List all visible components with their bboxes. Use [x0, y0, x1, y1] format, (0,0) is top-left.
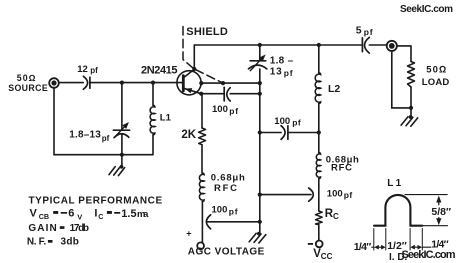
svg-text:pf: pf	[229, 106, 238, 116]
resistor RL 50 ohm load	[408, 62, 415, 88]
dimension arrows left 1/4	[372, 245, 386, 250]
wire: top bus	[194, 44, 361, 46]
wire: C1 to Q1 base	[90, 82, 183, 84]
node L2 top	[317, 43, 321, 47]
variable capacitor C5 1.8-13pf (output)	[249, 53, 268, 71]
wire: output terminal down and right	[392, 51, 411, 108]
wire: L2 to mid node	[318, 104, 320, 153]
svg-text:5/8″: 5/8″	[431, 206, 451, 218]
svg-text:L1: L1	[160, 112, 172, 123]
input terminal J1 (50 ohm source)	[49, 78, 59, 88]
svg-text:5: 5	[356, 24, 362, 36]
svg-text:N. F.: N. F.	[27, 236, 46, 247]
VCC terminal	[316, 241, 323, 248]
resistor RC	[316, 211, 323, 225]
label 100 pf (collector bypass)	[327, 189, 353, 201]
shield dashed line to bypass node	[196, 70, 223, 83]
svg-text:TYPICAL PERFORMANCE: TYPICAL PERFORMANCE	[29, 196, 163, 207]
wire: case lead to ground bus	[201, 82, 259, 84]
ground (input tank)	[109, 155, 125, 176]
svg-text:1/4″: 1/4″	[354, 241, 372, 253]
label 0.68uh RFC (right)	[326, 155, 359, 174]
shield dashed line	[183, 27, 194, 69]
svg-text:2N2415: 2N2415	[141, 65, 178, 77]
svg-text:C: C	[98, 212, 103, 221]
svg-text:12: 12	[77, 64, 88, 75]
label RC	[325, 208, 339, 221]
label 100 pf (emitter bypass)	[212, 104, 239, 116]
node dots on ground bus	[258, 43, 262, 47]
node junction L1 branch	[151, 81, 155, 85]
svg-text:L2: L2	[328, 83, 340, 95]
svg-text:6: 6	[68, 208, 74, 220]
dimension arrows right 1/4	[410, 245, 431, 250]
svg-text:CC: CC	[321, 252, 333, 261]
svg-text:pf: pf	[229, 206, 238, 216]
dimension top extension line	[405, 194, 447, 196]
label 1.8-13 pf (input)	[69, 130, 109, 143]
svg-text:3db: 3db	[61, 237, 79, 248]
typical performance text block	[27, 196, 163, 248]
node junction input tank	[120, 81, 124, 85]
ground (load)	[401, 108, 418, 126]
svg-text:pf: pf	[102, 134, 110, 143]
svg-text:V: V	[77, 212, 82, 221]
wire: source terminal to C1	[59, 82, 83, 84]
svg-text:17db: 17db	[70, 223, 89, 234]
wire: emitter to C3	[201, 93, 224, 95]
transistor Q1 2N2415	[177, 69, 201, 95]
svg-text:2K: 2K	[181, 129, 196, 141]
wire: RC to VCC terminal	[318, 225, 320, 241]
node emitter lead	[199, 92, 203, 96]
inductor L1	[150, 83, 155, 155]
svg-text:pf: pf	[364, 27, 373, 37]
label 0.68uh RFC	[211, 173, 245, 195]
svg-text:1.5: 1.5	[121, 208, 136, 220]
wire: C3 to ground bus	[230, 93, 260, 95]
label + AGC VOLTAGE	[186, 228, 264, 257]
dimension extension lines	[374, 229, 423, 251]
label 12 pf	[77, 64, 98, 75]
svg-text:100: 100	[212, 104, 228, 115]
label 1.8-13 pf (output)	[270, 55, 294, 78]
node mid line left	[317, 130, 321, 134]
svg-text:50Ω: 50Ω	[426, 64, 447, 75]
capacitor C8 5pf	[362, 37, 369, 53]
wire: C4 to ground bus	[207, 221, 260, 223]
inductor RFC1 0.68uh	[199, 173, 204, 202]
svg-text:V: V	[30, 207, 38, 219]
capacitor C1 12pf	[83, 76, 90, 89]
wire: bypass line y=194.6	[260, 194, 311, 196]
inductor L2	[315, 73, 320, 104]
inductor RFC2 0.68uh	[316, 153, 320, 179]
wire: C8 to output terminal	[369, 44, 386, 46]
wire: RFC1 down to AGC terminal	[201, 202, 203, 243]
label 100 pf (mid)	[274, 116, 301, 128]
L1 detail drawing: hairpin loop	[374, 195, 422, 226]
wire: load bottom	[410, 87, 412, 108]
svg-text:pf: pf	[292, 117, 301, 127]
svg-text:RFC: RFC	[214, 183, 237, 194]
svg-text:13: 13	[270, 66, 282, 77]
svg-text:50Ω: 50Ω	[17, 73, 37, 83]
wire: bottom of input tank	[54, 154, 153, 156]
svg-text:ma: ma	[137, 209, 149, 220]
wire: R1 to RFC1	[201, 145, 203, 173]
node collector bend	[192, 67, 196, 71]
svg-text:GAIN: GAIN	[28, 223, 57, 234]
svg-text:AGC VOLTAGE: AGC VOLTAGE	[188, 247, 265, 258]
svg-text:1.8–13: 1.8–13	[69, 130, 101, 141]
svg-text:C: C	[333, 212, 339, 221]
wire: mid coupling line y=132.5	[260, 132, 281, 134]
label 50 ohm LOAD	[422, 64, 450, 87]
svg-text:CB: CB	[39, 212, 49, 221]
svg-text:0.68μh: 0.68μh	[211, 173, 245, 184]
svg-text:100: 100	[274, 116, 290, 127]
svg-text:100: 100	[212, 205, 228, 216]
label 50 ohm SOURCE	[8, 73, 48, 93]
ground bus vertical (x=260)	[259, 45, 261, 60]
svg-text:L1: L1	[387, 178, 403, 189]
capacitor C7 100pf (collector bypass) curved plate	[309, 188, 314, 201]
capacitor C3 100pf (emitter bypass)	[224, 87, 230, 101]
variable capacitor C2 1.8-13pf (input)	[113, 83, 131, 155]
svg-text:SHIELD: SHIELD	[186, 26, 228, 38]
svg-text:pf: pf	[344, 190, 353, 200]
label 5 pf	[356, 24, 373, 37]
wire: left vertical from source terminal	[53, 88, 55, 155]
resistor R1 2K	[199, 128, 206, 145]
svg-text:LOAD: LOAD	[422, 77, 450, 88]
AGC terminal	[197, 242, 204, 249]
svg-text:pf: pf	[284, 68, 294, 78]
wire: C6 to collector feed	[288, 132, 319, 134]
output terminal J2	[387, 41, 397, 51]
wire: L2 branch top	[318, 45, 320, 73]
label -VCC	[308, 243, 333, 261]
svg-text:1.8 –: 1.8 –	[270, 55, 294, 66]
node shield tie point	[221, 81, 225, 85]
svg-text:RFC: RFC	[331, 163, 352, 174]
wire: emitter down to R1	[201, 94, 203, 128]
wire: ground bus continues down	[259, 69, 261, 233]
wire: RFC2 to RC	[318, 179, 320, 211]
ground (center bus)	[249, 232, 266, 243]
svg-text:SeekIC.com: SeekIC.com	[400, 4, 453, 15]
svg-text:I: I	[94, 207, 97, 219]
capacitor C6 100pf (mid)	[281, 126, 288, 140]
svg-text:SOURCE: SOURCE	[8, 83, 48, 93]
node case lead	[199, 81, 203, 85]
svg-text:100: 100	[327, 189, 343, 200]
node junction tank bottom	[120, 153, 124, 157]
capacitor C4 100pf (AGC bypass) curved plate	[206, 215, 210, 229]
svg-text:+: +	[186, 228, 191, 238]
dimension 5/8 vertical with arrows	[436, 196, 441, 226]
dimension right foot extension	[422, 225, 447, 227]
svg-text:pf: pf	[90, 66, 98, 75]
wire: collector up to top bus	[193, 45, 195, 69]
node load bottom	[409, 106, 413, 110]
wire: output terminal to load	[397, 46, 411, 62]
label 100 pf (AGC bypass)	[212, 205, 239, 217]
svg-text:SeekIC.com: SeekIC.com	[402, 249, 456, 261]
